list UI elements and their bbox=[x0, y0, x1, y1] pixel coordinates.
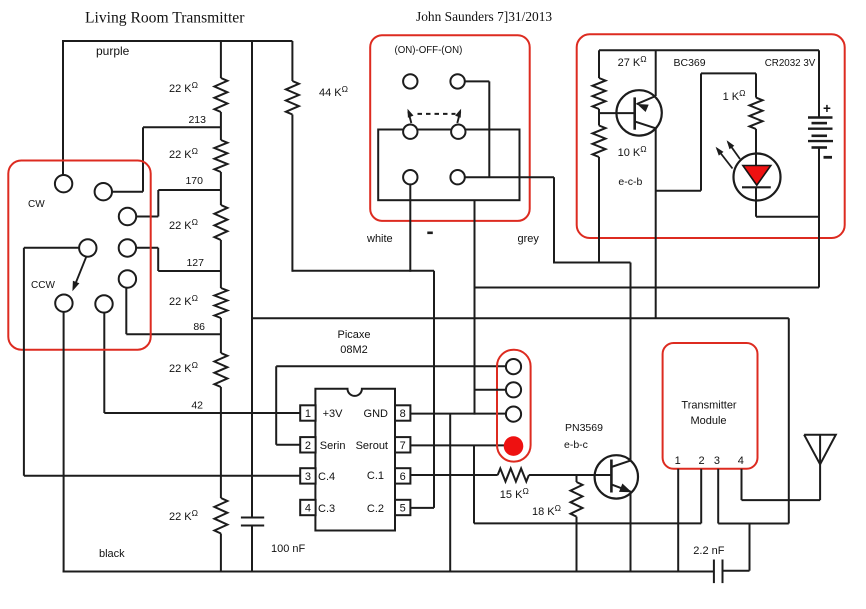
svg-text:08M2: 08M2 bbox=[340, 344, 368, 356]
svg-text:127: 127 bbox=[186, 257, 204, 269]
svg-text:2.2 nF: 2.2 nF bbox=[693, 545, 724, 557]
svg-text:1: 1 bbox=[675, 455, 681, 467]
svg-text:8: 8 bbox=[400, 408, 406, 420]
svg-text:grey: grey bbox=[518, 233, 540, 245]
svg-text:C.1: C.1 bbox=[367, 470, 384, 482]
svg-text:3: 3 bbox=[305, 471, 311, 483]
svg-text:+: + bbox=[823, 101, 831, 116]
svg-text:1: 1 bbox=[305, 408, 311, 420]
svg-text:213: 213 bbox=[188, 114, 206, 126]
svg-text:C.3: C.3 bbox=[318, 503, 335, 515]
svg-text:3: 3 bbox=[714, 455, 720, 467]
svg-text:86: 86 bbox=[193, 321, 205, 333]
svg-text:6: 6 bbox=[400, 471, 406, 483]
svg-text:PN3569: PN3569 bbox=[565, 422, 603, 434]
svg-text:CCW: CCW bbox=[31, 280, 55, 291]
svg-text:4: 4 bbox=[305, 503, 311, 515]
svg-text:CW: CW bbox=[28, 199, 45, 210]
svg-text:e-c-b: e-c-b bbox=[618, 176, 642, 188]
svg-text:2: 2 bbox=[305, 440, 311, 452]
svg-text:John Saunders 7]31/2013: John Saunders 7]31/2013 bbox=[416, 9, 552, 24]
svg-text:CR2032 3V: CR2032 3V bbox=[765, 58, 816, 69]
svg-text:GND: GND bbox=[364, 408, 389, 420]
svg-text:+3V: +3V bbox=[323, 408, 344, 420]
svg-text:4: 4 bbox=[738, 455, 744, 467]
svg-text:e-b-c: e-b-c bbox=[564, 439, 588, 451]
svg-text:7: 7 bbox=[400, 440, 406, 452]
svg-text:C.2: C.2 bbox=[367, 503, 384, 515]
svg-text:Living Room Transmitter: Living Room Transmitter bbox=[85, 10, 245, 27]
svg-text:Transmitter: Transmitter bbox=[681, 400, 737, 412]
svg-text:purple: purple bbox=[96, 44, 130, 58]
svg-text:Module: Module bbox=[690, 415, 726, 427]
svg-text:black: black bbox=[99, 548, 125, 560]
svg-text:5: 5 bbox=[400, 503, 406, 515]
svg-text:42: 42 bbox=[191, 400, 203, 412]
svg-text:C.4: C.4 bbox=[318, 471, 335, 483]
svg-text:Serin: Serin bbox=[320, 440, 346, 452]
svg-text:white: white bbox=[366, 233, 393, 245]
svg-text:2: 2 bbox=[698, 455, 704, 467]
svg-text:Serout: Serout bbox=[356, 440, 388, 452]
svg-text:BC369: BC369 bbox=[674, 57, 706, 69]
svg-text:100 nF: 100 nF bbox=[271, 543, 306, 555]
svg-text:Picaxe: Picaxe bbox=[337, 329, 370, 341]
svg-text:(ON)-OFF-(ON): (ON)-OFF-(ON) bbox=[395, 45, 463, 56]
svg-text:170: 170 bbox=[185, 175, 203, 187]
